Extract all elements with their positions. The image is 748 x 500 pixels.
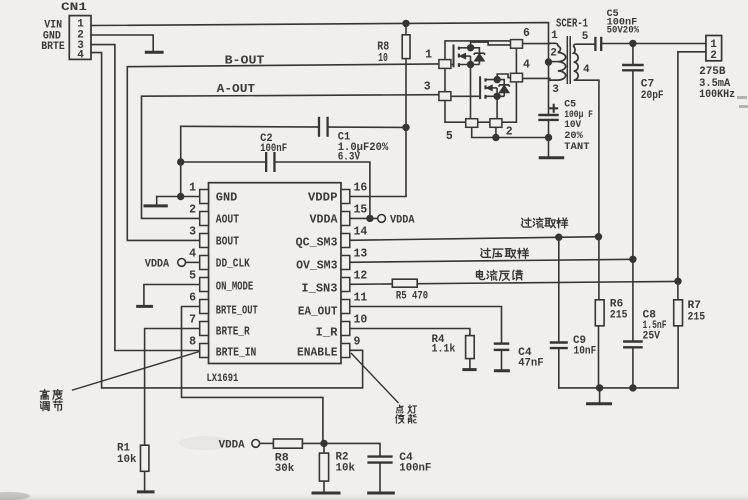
svg-text:ON_MODE: ON_MODE: [216, 281, 253, 294]
svg-text:BRTE: BRTE: [41, 41, 65, 53]
svg-text:30k: 30k: [275, 463, 295, 475]
svg-text:CN1: CN1: [61, 2, 88, 14]
svg-text:7: 7: [189, 314, 196, 327]
svg-text:VDDP: VDDP: [308, 192, 338, 205]
svg-text:10: 10: [378, 51, 388, 65]
svg-text:4: 4: [523, 58, 530, 71]
svg-text:8: 8: [189, 336, 196, 349]
svg-text:10nF: 10nF: [574, 346, 597, 358]
svg-text:100nF: 100nF: [260, 143, 287, 155]
svg-text:1: 1: [189, 182, 196, 195]
svg-text:4: 4: [189, 248, 196, 261]
svg-text:1: 1: [425, 49, 432, 62]
svg-text:1: 1: [77, 18, 84, 30]
svg-text:I_R: I_R: [316, 327, 338, 340]
svg-text:47nF: 47nF: [518, 357, 544, 369]
svg-text:12: 12: [354, 270, 368, 283]
svg-text:6.3V: 6.3V: [338, 152, 361, 164]
svg-text:3: 3: [189, 226, 196, 239]
svg-text:5: 5: [446, 130, 453, 143]
svg-text:3.5mA: 3.5mA: [699, 78, 731, 90]
svg-text:100nF: 100nF: [399, 463, 431, 475]
svg-text:LX1691: LX1691: [207, 373, 239, 385]
svg-text:6: 6: [523, 27, 530, 40]
svg-text:10k: 10k: [117, 454, 137, 466]
svg-text:EA_OUT: EA_OUT: [298, 306, 338, 319]
svg-text:5: 5: [189, 270, 196, 283]
svg-text:BRTE_OUT: BRTE_OUT: [216, 305, 258, 318]
svg-text:R5 470: R5 470: [396, 291, 428, 303]
svg-text:275B: 275B: [699, 66, 726, 78]
svg-text:R7: R7: [688, 300, 702, 312]
svg-text:10k: 10k: [336, 463, 356, 475]
svg-text:14: 14: [354, 226, 368, 239]
svg-text:25V: 25V: [643, 330, 661, 342]
svg-text:AOUT: AOUT: [216, 214, 239, 227]
svg-text:5: 5: [582, 31, 589, 43]
svg-text:OV_SM3: OV_SM3: [296, 260, 337, 273]
svg-text:BRTE_R: BRTE_R: [216, 326, 250, 339]
svg-text:TANT: TANT: [564, 141, 589, 153]
svg-text:215: 215: [688, 312, 706, 324]
svg-text:A-OUT: A-OUT: [217, 83, 255, 96]
svg-text:2: 2: [710, 50, 717, 62]
svg-text:3: 3: [552, 84, 559, 96]
svg-text:B-OUT: B-OUT: [225, 55, 265, 68]
svg-text:9: 9: [354, 336, 361, 349]
svg-text:16: 16: [354, 182, 368, 195]
svg-text:11: 11: [354, 292, 368, 305]
svg-text:50V20%: 50V20%: [607, 24, 640, 36]
svg-text:C7: C7: [641, 79, 655, 91]
svg-text:215: 215: [610, 310, 628, 322]
svg-text:QC_SM3: QC_SM3: [296, 237, 338, 250]
svg-text:20pF: 20pF: [641, 90, 664, 102]
svg-text:R1: R1: [117, 443, 130, 455]
svg-text:100KHz: 100KHz: [699, 89, 735, 101]
svg-text:6: 6: [189, 292, 196, 305]
svg-text:SCER-1: SCER-1: [556, 17, 588, 30]
svg-text:4: 4: [583, 64, 590, 76]
svg-text:ENABLE: ENABLE: [297, 347, 338, 360]
svg-text:VDDA: VDDA: [219, 440, 245, 452]
svg-text:BOUT: BOUT: [216, 236, 239, 249]
svg-text:2: 2: [189, 204, 196, 217]
svg-text:1: 1: [551, 30, 558, 42]
svg-text:BRTE_IN: BRTE_IN: [216, 347, 257, 360]
svg-text:4: 4: [77, 49, 84, 61]
svg-text:DD_CLK: DD_CLK: [216, 258, 250, 271]
svg-text:VDDA: VDDA: [390, 214, 415, 226]
svg-text:VDDA: VDDA: [310, 214, 338, 227]
svg-text:13: 13: [354, 248, 368, 261]
svg-text:1.1k: 1.1k: [432, 344, 456, 356]
svg-text:GND: GND: [216, 192, 238, 205]
svg-text:10: 10: [354, 314, 368, 327]
svg-text:3: 3: [424, 81, 431, 94]
svg-text:2: 2: [506, 125, 513, 138]
svg-text:2: 2: [550, 48, 557, 60]
svg-text:VDDA: VDDA: [145, 259, 170, 271]
svg-text:I_SN3: I_SN3: [301, 283, 337, 296]
svg-text:15: 15: [354, 204, 368, 217]
